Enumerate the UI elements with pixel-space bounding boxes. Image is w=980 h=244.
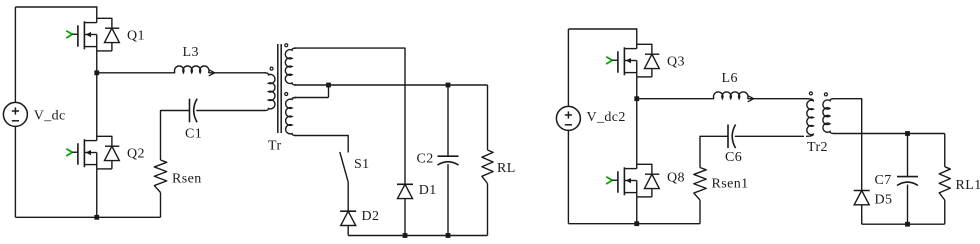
node C2 bottom junction — [446, 233, 451, 238]
label L6 — [722, 71, 738, 86]
wire Q2 drain — [96, 73, 98, 141]
transformer Tr primary phase dot — [270, 67, 273, 70]
wire bottom rail left — [15, 216, 160, 218]
resistor Rsen — [154, 160, 166, 193]
wire output bottom rail — [348, 235, 487, 237]
wire Rsen1 to C6 — [700, 136, 728, 167]
transformer Tr2 secondary winding — [823, 99, 834, 134]
node A junction — [94, 70, 99, 75]
switch S1 — [340, 152, 348, 182]
capacitor C7 — [897, 177, 918, 186]
wire L3 to transformer — [209, 72, 267, 74]
wire S1 to D2 — [347, 182, 349, 211]
wire Q8 source — [636, 197, 638, 224]
wire Q3 source to node B — [636, 77, 638, 99]
transformer Tr secondary winding 1 — [285, 48, 296, 85]
wire C2 bottom lead — [447, 164, 449, 235]
svg-text:Q2: Q2 — [127, 147, 145, 162]
wire C7 bottom lead — [907, 185, 909, 225]
label RL1 — [956, 178, 980, 193]
wire RL bottom lead — [487, 184, 489, 236]
label C1 — [185, 126, 202, 141]
transistor Q2 — [66, 136, 119, 169]
svg-text:L6: L6 — [722, 71, 738, 86]
label Q2 — [127, 147, 145, 162]
svg-text:D5: D5 — [875, 193, 893, 208]
arrow L3 current — [209, 70, 215, 76]
wire Q2 source — [96, 169, 98, 217]
svg-text:C7: C7 — [875, 173, 892, 188]
diode D1 — [397, 184, 413, 198]
node bottom rail junction — [94, 215, 99, 220]
node bottom rail 2 junction — [634, 221, 639, 226]
wire RL1 bottom lead — [944, 200, 946, 224]
svg-text:Q1: Q1 — [127, 29, 145, 44]
wire Q1 source to node A — [96, 51, 98, 73]
svg-text:RL: RL — [497, 161, 516, 176]
svg-text:Rsen1: Rsen1 — [712, 177, 749, 192]
wire left rail bottom — [14, 126, 16, 217]
wire top rail — [15, 6, 96, 8]
diode D5 — [854, 191, 870, 205]
capacitor C6 — [728, 125, 736, 149]
wire right rail top — [567, 29, 569, 106]
transformer Tr2 primary winding — [806, 99, 813, 137]
wire output bottom rail 2 — [862, 223, 945, 225]
transformer Tr2 primary phase dot — [809, 92, 812, 95]
wire C6 to transformer — [735, 135, 804, 137]
wire Rsen bottom lead — [160, 193, 162, 218]
wire D5 anode — [861, 205, 863, 224]
label Q1 — [127, 29, 145, 44]
svg-text:Q3: Q3 — [667, 55, 685, 70]
label Rsen — [172, 172, 202, 187]
svg-text:D2: D2 — [362, 209, 380, 224]
svg-text:V_dc2: V_dc2 — [587, 110, 626, 125]
wire Q1 drain drop — [96, 6, 98, 22]
node C7 top junction — [905, 131, 910, 136]
svg-text:C6: C6 — [725, 150, 742, 165]
wire bottom rail right — [568, 223, 700, 225]
label Rsen1 — [712, 177, 749, 192]
wire secondary top — [295, 48, 406, 184]
node C7 bottom junction — [905, 222, 910, 227]
svg-text:C1: C1 — [185, 126, 202, 141]
wire right rail bottom — [567, 130, 569, 223]
transistor Q3 — [606, 44, 659, 77]
inductor L3 — [175, 66, 210, 73]
wire center tap upper — [295, 84, 329, 86]
label C7 — [875, 173, 892, 188]
transformer Tr core — [278, 44, 281, 133]
svg-text:Tr: Tr — [268, 139, 282, 154]
label L3 — [183, 45, 199, 60]
svg-text:Tr2: Tr2 — [807, 140, 828, 155]
label S1 — [354, 157, 370, 172]
wire left rail top — [14, 7, 16, 102]
wire secondary bottom to S1 — [295, 136, 349, 153]
wire Q8 drain — [636, 99, 638, 169]
svg-text:V_dc: V_dc — [34, 108, 66, 123]
svg-text:Rsen: Rsen — [172, 172, 202, 187]
wire D2 anode — [347, 226, 349, 236]
transistor Q8 — [606, 164, 659, 197]
wire C2 top lead — [447, 85, 449, 156]
svg-text:RL1: RL1 — [956, 178, 980, 193]
wire node A to L3 — [97, 72, 175, 74]
transformer Tr secondary winding 2 — [286, 98, 296, 136]
voltage source V_dc — [3, 102, 27, 126]
transformer Tr primary winding — [265, 73, 275, 111]
transformer Tr secondary 2 phase dot — [285, 93, 288, 96]
svg-text:C2: C2 — [417, 152, 434, 167]
resistor RL1 — [939, 167, 950, 200]
node C2 top junction — [446, 83, 451, 88]
wire C1 to transformer — [196, 110, 265, 112]
wire Rsen1 bottom lead — [699, 200, 701, 224]
resistor RL — [482, 150, 493, 184]
label V_dc — [34, 108, 66, 123]
svg-text:D1: D1 — [419, 183, 437, 198]
label Tr — [268, 139, 282, 154]
capacitor C2 — [438, 156, 459, 165]
label Tr2 — [807, 140, 828, 155]
label D2 — [362, 209, 380, 224]
transformer Tr2 secondary phase dot — [824, 93, 827, 96]
wire center tap link — [328, 85, 330, 98]
label RL — [497, 161, 516, 176]
transistor Q1 — [66, 18, 119, 51]
capacitor C1 — [190, 99, 198, 123]
label C2 — [417, 152, 434, 167]
label D1 — [419, 183, 437, 198]
inductor L6 — [714, 92, 748, 99]
transformer Tr secondary 1 phase dot — [285, 44, 288, 47]
wire RL top lead — [487, 85, 489, 150]
wire center tap lower — [295, 97, 329, 99]
wire Rsen to C1 — [161, 111, 190, 161]
wire center tap to loads — [329, 84, 488, 86]
wire output top rail — [834, 133, 945, 135]
label D5 — [875, 193, 893, 208]
voltage source V_dc2 — [556, 106, 580, 130]
wire L6 to transformer — [748, 98, 807, 100]
arrow L6 current — [748, 96, 754, 102]
node B junction — [634, 96, 639, 101]
node center tap junction — [326, 83, 331, 88]
wire secondary2 top to D5 — [834, 99, 862, 191]
wire RL1 top lead — [944, 134, 946, 167]
label Q8 — [667, 171, 685, 186]
label C6 — [725, 150, 742, 165]
wire top rail 2 — [568, 28, 636, 30]
svg-text:L3: L3 — [183, 45, 199, 60]
label Q3 — [667, 55, 685, 70]
label V_dc2 — [587, 110, 626, 125]
svg-text:Q8: Q8 — [667, 171, 685, 186]
wire node B to L6 — [637, 98, 714, 100]
svg-text:S1: S1 — [354, 157, 370, 172]
node D1 bottom junction — [403, 233, 408, 238]
diode D2 — [340, 211, 356, 225]
wire C7 top lead — [907, 134, 909, 177]
wire D1 anode — [404, 199, 406, 236]
resistor Rsen1 — [694, 168, 706, 201]
wire Q3 drain drop — [636, 28, 638, 48]
